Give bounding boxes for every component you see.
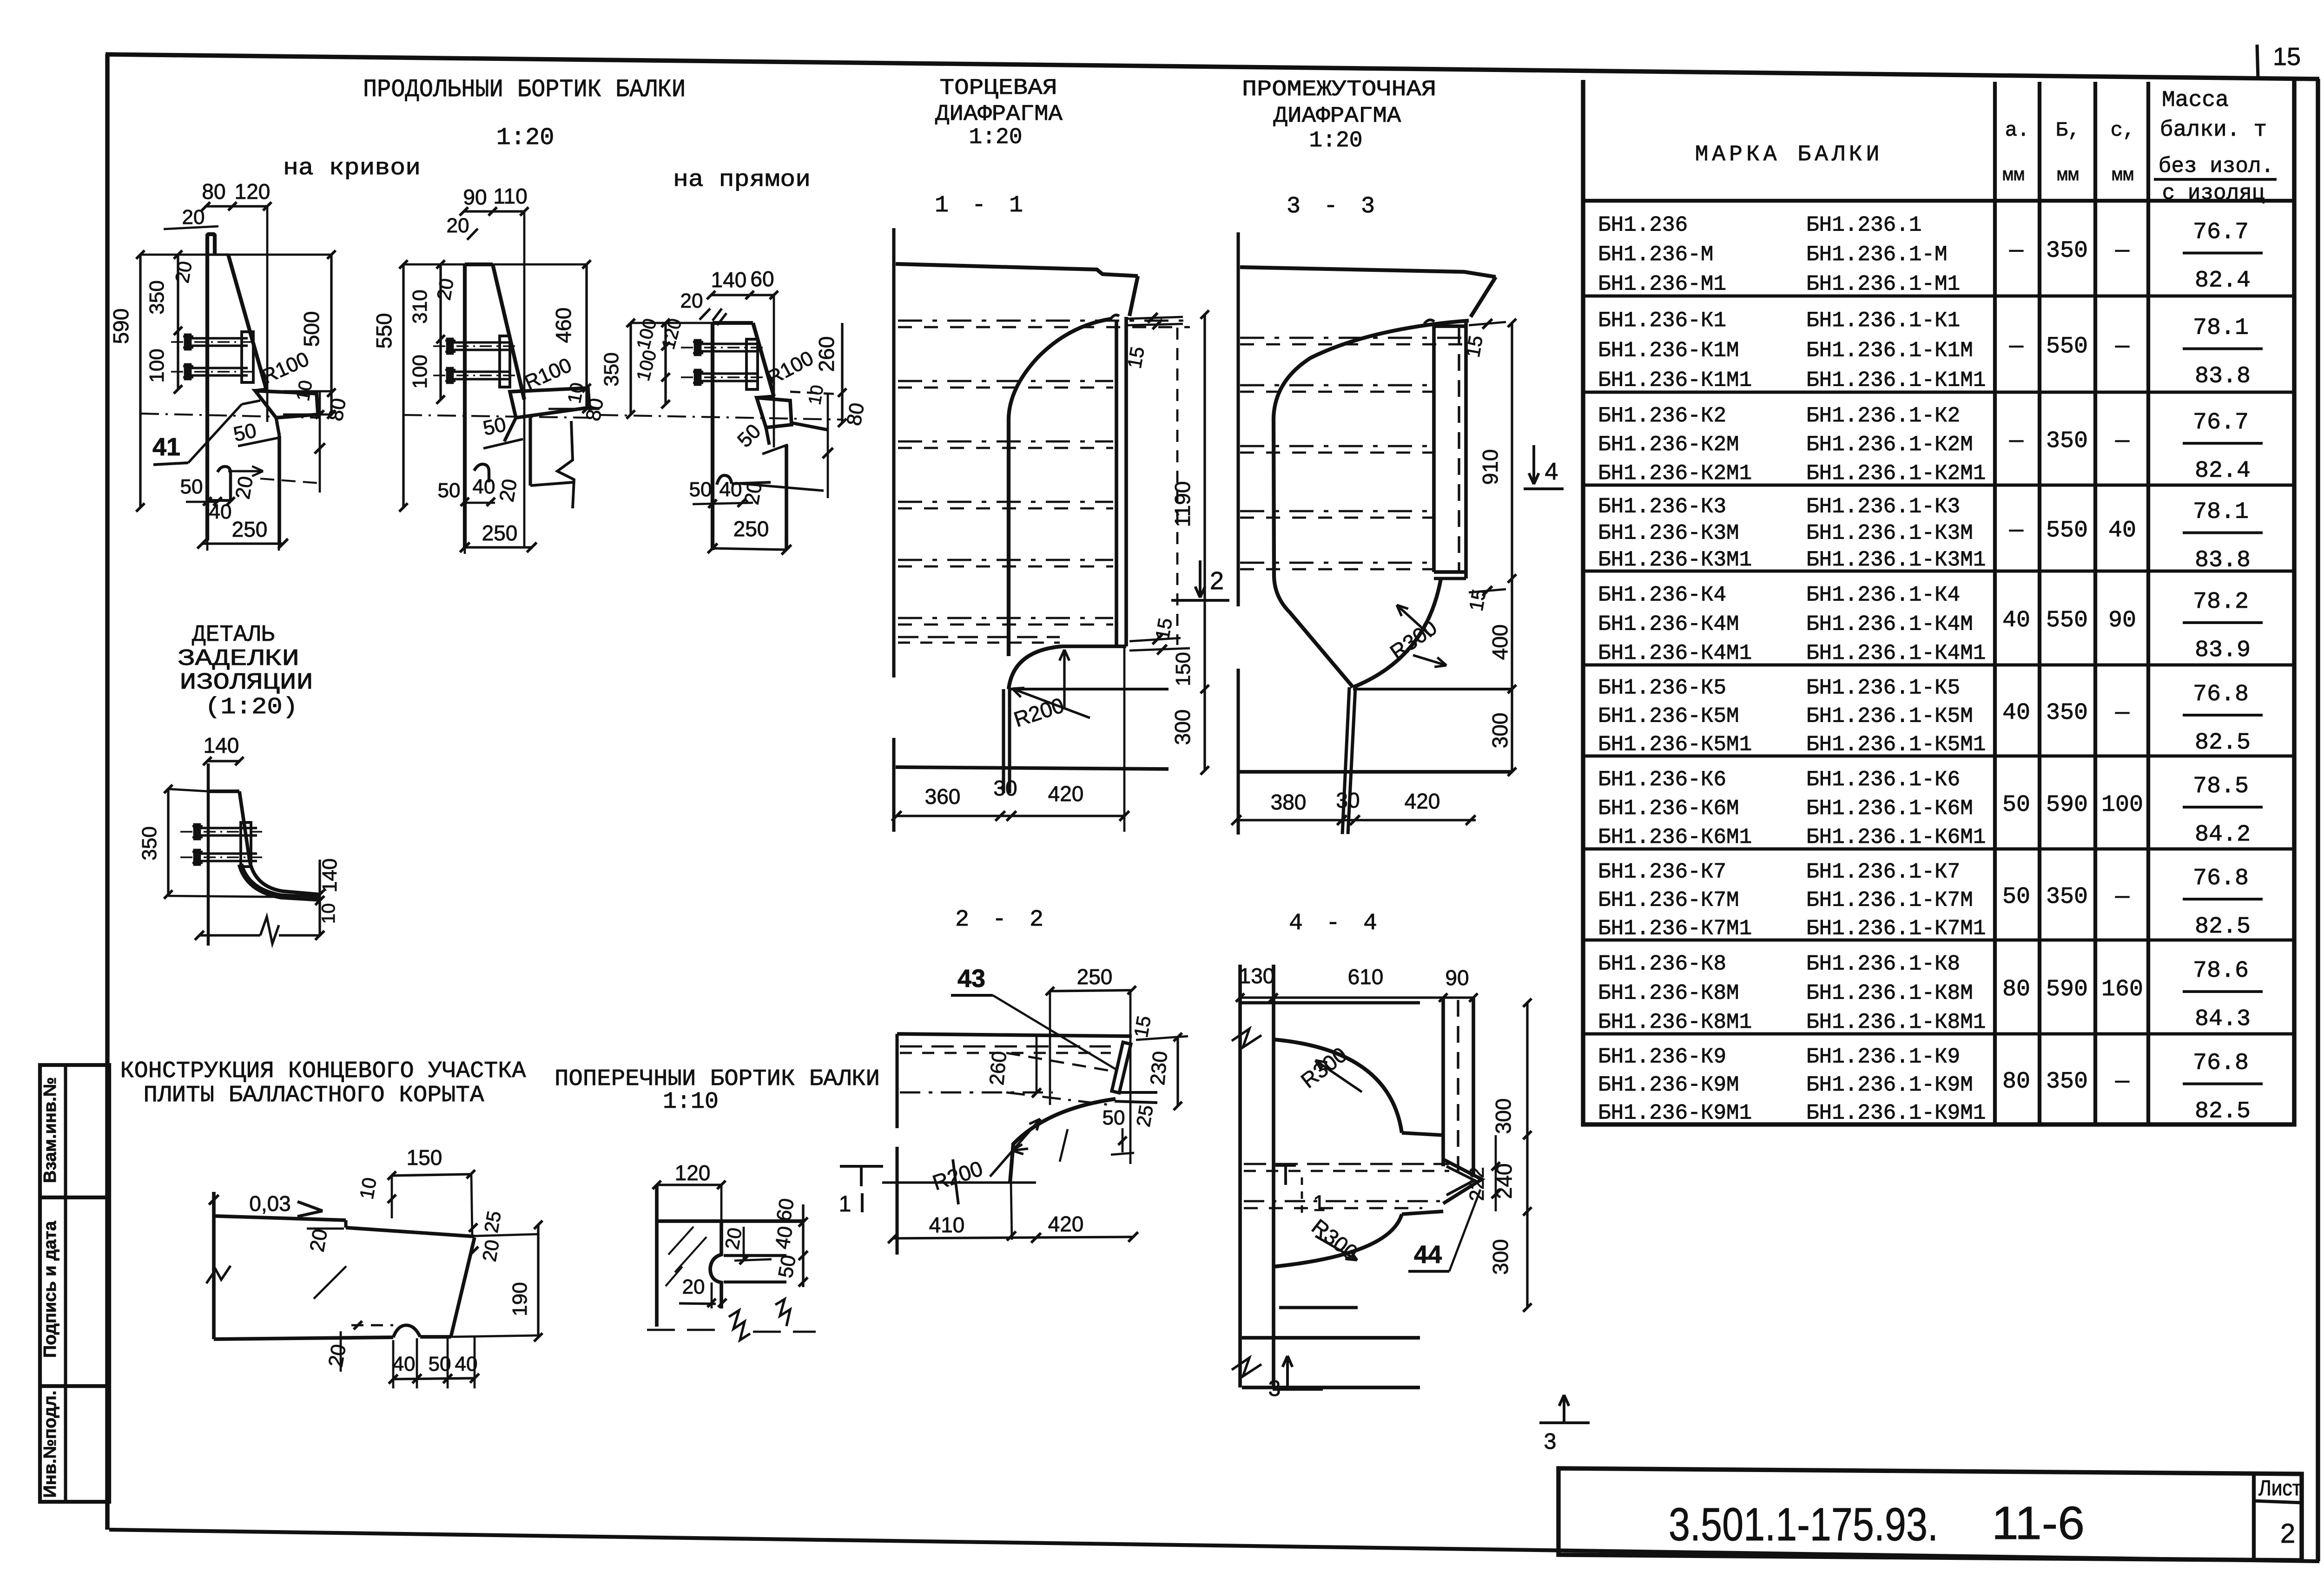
svg-text:БН1.236.1-К7: БН1.236.1-К7 [1806, 860, 1960, 884]
drawing A anchor bolt 2 [171, 371, 255, 373]
svg-text:БН1.236-К7М: БН1.236-К7М [1598, 888, 1739, 913]
svg-text:БН1.236.1-К9М1: БН1.236.1-К9М1 [1806, 1101, 1986, 1125]
svg-text:БН1.236-К9: БН1.236-К9 [1598, 1045, 1726, 1069]
drawing B anchor bolt 2 [433, 375, 517, 376]
svg-text:10: 10 [356, 1176, 381, 1201]
stamp column outer box [40, 1065, 109, 1502]
svg-text:Инв.№подл.: Инв.№подл. [40, 1390, 60, 1498]
svg-text:1:20: 1:20 [1309, 128, 1362, 153]
drawing E top surface [215, 1216, 346, 1220]
svg-text:БН1.236-К1: БН1.236-К1 [1598, 309, 1726, 333]
section 3-3 left broken edge [1236, 232, 1240, 606]
svg-text:БН1.236-К1М: БН1.236-К1М [1598, 338, 1739, 362]
svg-text:3: 3 [1544, 1429, 1557, 1454]
svg-text:420: 420 [1405, 789, 1440, 813]
svg-text:БН1.236-К5: БН1.236-К5 [1598, 676, 1726, 700]
section 1-1 drain stem [1002, 689, 1005, 793]
svg-text:БН1.236.1-К1: БН1.236.1-К1 [1806, 309, 1960, 333]
svg-text:БН1.236-К8М1: БН1.236-К8М1 [1598, 1010, 1752, 1034]
svg-text:БН1.236-К8: БН1.236-К8 [1598, 952, 1726, 976]
svg-text:БН1.236.1-К3: БН1.236.1-К3 [1806, 494, 1960, 519]
svg-text:400: 400 [1488, 625, 1512, 660]
svg-text:БН1.236.1-К4: БН1.236.1-К4 [1806, 583, 1960, 607]
section 2-2 left broken edge [895, 1034, 898, 1128]
svg-text:100: 100 [2101, 792, 2143, 818]
svg-text:41: 41 [152, 433, 180, 461]
svg-text:50: 50 [1103, 1106, 1125, 1129]
svg-text:222: 222 [1466, 1167, 1488, 1201]
svg-text:40: 40 [720, 478, 742, 501]
svg-text:50: 50 [2002, 792, 2030, 818]
svg-text:БН1.236-К5М: БН1.236-К5М [1598, 704, 1739, 729]
svg-text:140: 140 [204, 733, 239, 757]
svg-text:10: 10 [805, 383, 828, 406]
svg-text:90: 90 [2108, 607, 2136, 634]
frame bottom border [109, 1530, 2319, 1561]
svg-text:76.7: 76.7 [2193, 219, 2249, 246]
svg-text:20: 20 [324, 1342, 350, 1369]
svg-text:20: 20 [682, 1275, 705, 1298]
section 3-3 diaphragm band [1434, 321, 1466, 579]
svg-text:260: 260 [985, 1050, 1011, 1086]
section 3-3 bottom dim 380 30 420 [1236, 819, 1476, 821]
svg-text:20: 20 [495, 477, 522, 504]
svg-text:мм: мм [2057, 165, 2079, 186]
svg-text:БН1.236-К2М: БН1.236-К2М [1598, 433, 1739, 457]
svg-text:11-6: 11-6 [1992, 1497, 2085, 1549]
svg-text:120: 120 [675, 1161, 711, 1185]
svg-text:15: 15 [1130, 1014, 1155, 1039]
svg-text:550: 550 [2046, 607, 2088, 634]
svg-text:610: 610 [1348, 965, 1384, 989]
drawing A lip [255, 391, 318, 418]
section 4-4 web break marks [1232, 1029, 1261, 1047]
svg-text:—: — [2115, 884, 2130, 910]
svg-text:БН1.236-К6: БН1.236-К6 [1598, 768, 1726, 792]
drawing F bottom dashed line [647, 1329, 725, 1331]
svg-text:82.5: 82.5 [2195, 1098, 2251, 1125]
svg-text:82.5: 82.5 [2195, 914, 2251, 940]
detail dim 350 [167, 789, 169, 894]
drawing A top tab [207, 232, 215, 236]
svg-text:350: 350 [600, 352, 623, 386]
svg-text:1:20: 1:20 [969, 125, 1022, 150]
svg-text:Подпись и дата: Подпись и дата [40, 1221, 60, 1358]
svg-text:МАРКА БАЛКИ: МАРКА БАЛКИ [1695, 142, 1883, 167]
svg-text:1:20: 1:20 [496, 124, 555, 151]
svg-text:ДИАФРАГМА: ДИАФРАГМА [935, 102, 1063, 127]
svg-text:80: 80 [2002, 976, 2030, 1003]
svg-text:БН1.236-К1М1: БН1.236-К1М1 [1598, 368, 1752, 393]
drawing A bolt bracket [242, 332, 253, 382]
svg-text:БН1.236.1: БН1.236.1 [1806, 213, 1921, 237]
svg-text:40: 40 [2108, 518, 2136, 544]
svg-text:50: 50 [438, 479, 461, 502]
svg-text:300: 300 [1488, 713, 1512, 749]
svg-text:20: 20 [740, 480, 766, 506]
section 4-4 middle tendon dashes [1244, 1163, 1449, 1165]
drawing B lip [510, 388, 589, 418]
svg-text:40: 40 [393, 1353, 416, 1375]
svg-text:190: 190 [508, 1282, 531, 1316]
section 4-4 top slab surface [1240, 1001, 1420, 1004]
svg-text:410: 410 [929, 1213, 965, 1237]
svg-text:76.7: 76.7 [2193, 409, 2249, 436]
svg-text:—: — [2115, 334, 2130, 360]
svg-text:БН1.236.1-К1М: БН1.236.1-К1М [1806, 338, 1973, 362]
table header bottom line [1583, 199, 2294, 203]
drawing C lip [757, 398, 792, 427]
section 3-3 R300 arc [1353, 579, 1441, 687]
section 3-3 top right cut [1471, 277, 1496, 317]
drawing C dim 350 [629, 323, 632, 414]
svg-text:БН1.236-К6М1: БН1.236-К6М1 [1598, 825, 1752, 849]
frame top border [106, 54, 2319, 79]
svg-text:360: 360 [925, 784, 961, 809]
drawing B axis dash line [403, 415, 589, 418]
svg-text:20: 20 [478, 1238, 503, 1263]
svg-text:83.8: 83.8 [2195, 547, 2251, 574]
svg-text:350: 350 [2046, 884, 2088, 910]
section marker 3 right [1563, 1395, 1565, 1423]
section 2-2 kerb profile with R200 [1010, 1099, 1116, 1183]
svg-text:84.2: 84.2 [2195, 822, 2251, 848]
svg-text:80: 80 [2002, 1069, 2030, 1095]
svg-text:20: 20 [171, 259, 196, 284]
svg-text:КОНСТРУКЦИЯ КОНЦЕВОГО УЧАСТКА: КОНСТРУКЦИЯ КОНЦЕВОГО УЧАСТКА [120, 1058, 526, 1085]
svg-text:350: 350 [145, 280, 168, 314]
svg-text:БН1.236-К6М: БН1.236-К6М [1598, 796, 1739, 821]
drawing A bottom notch [218, 467, 231, 500]
svg-text:1:10: 1:10 [663, 1089, 719, 1115]
svg-text:а.: а. [2005, 119, 2030, 142]
svg-text:Масса: Масса [2162, 88, 2229, 113]
svg-text:350: 350 [2046, 700, 2088, 726]
section 1-1 bottom dim 360 30 420 [897, 815, 1124, 817]
table outer border [1583, 79, 2294, 1124]
svg-text:2 - 2: 2 - 2 [955, 907, 1048, 933]
svg-text:1: 1 [839, 1192, 852, 1216]
drawing A axis dash line [140, 414, 321, 418]
section 3-3 inner curved face [1274, 321, 1469, 687]
svg-text:20: 20 [305, 1227, 332, 1254]
svg-text:БН1.236.1-К5М: БН1.236.1-К5М [1806, 704, 1973, 729]
svg-text:25: 25 [480, 1209, 505, 1234]
section 3-3 trough bottom [1353, 688, 1512, 690]
svg-text:50: 50 [481, 413, 508, 440]
svg-text:300: 300 [1170, 710, 1195, 745]
svg-text:350: 350 [2046, 238, 2088, 264]
svg-text:250: 250 [1077, 965, 1113, 989]
svg-text:БН1.236.1-К5: БН1.236.1-К5 [1806, 676, 1960, 700]
svg-text:910: 910 [1478, 449, 1502, 485]
svg-text:350: 350 [2046, 1069, 2088, 1095]
svg-text:50: 50 [2002, 884, 2030, 910]
drawing C bolt bracket [746, 339, 758, 389]
svg-text:с изоляц: с изоляц [2162, 181, 2265, 205]
svg-text:балки. т: балки. т [2160, 118, 2267, 143]
drawing B anchor bolt 1 [433, 345, 517, 347]
title block list divider [2252, 1474, 2256, 1560]
drawing E left edge [212, 1192, 216, 1339]
svg-text:80: 80 [842, 401, 869, 427]
frame left border [105, 54, 109, 1530]
svg-text:250: 250 [482, 521, 518, 545]
svg-text:82.5: 82.5 [2195, 730, 2251, 756]
section 4-4 V notch item 44 [1443, 1159, 1482, 1203]
drawing C bottom notch [717, 475, 732, 485]
svg-text:—: — [2115, 238, 2130, 264]
detail wall centerline [207, 763, 210, 946]
drawing B kerb on straight: wall outline [463, 264, 467, 547]
svg-text:БН1.236-К7М1: БН1.236-К7М1 [1598, 916, 1752, 940]
section 3-3 right dim line [1511, 323, 1513, 772]
svg-text:590: 590 [2046, 792, 2088, 818]
svg-text:без изол.: без изол. [2159, 154, 2274, 178]
drawing C dim 140 60 [711, 294, 774, 296]
svg-text:50: 50 [689, 478, 712, 501]
section 1-1 top right notch edge [1129, 276, 1138, 316]
svg-text:50: 50 [180, 475, 203, 498]
svg-text:1190: 1190 [1170, 481, 1195, 527]
title block box [1558, 1468, 2302, 1560]
drawing F bottom breaks [729, 1310, 750, 1340]
section 4-4 web verticals [1238, 965, 1242, 1387]
drawing E leader line bottom [314, 1266, 346, 1299]
section 3-3 tendon dashes [1240, 337, 1464, 339]
svg-text:82.4: 82.4 [2195, 268, 2251, 294]
stamp column inner vertical [64, 1065, 67, 1502]
svg-text:350: 350 [138, 826, 161, 860]
svg-text:0,03: 0,03 [249, 1191, 291, 1216]
svg-text:140: 140 [711, 268, 747, 292]
section 2-2 lip step lines [1116, 1091, 1157, 1094]
svg-text:250: 250 [733, 517, 769, 541]
svg-text:1: 1 [1313, 1191, 1326, 1216]
drawing F hatch [668, 1227, 693, 1255]
frame right border [2316, 79, 2320, 1561]
drawing C dim 100 100 chain [664, 323, 667, 404]
svg-text:3 - 3: 3 - 3 [1287, 193, 1380, 220]
svg-text:БН1.236.1-К4М: БН1.236.1-К4М [1806, 612, 1973, 636]
svg-text:мм: мм [2112, 165, 2134, 186]
drawing E slanted right edge [451, 1237, 475, 1337]
svg-text:110: 110 [493, 184, 527, 208]
section 4-4 lower R300 curve [1274, 1214, 1402, 1267]
section 3-3 lip line [1434, 577, 1466, 580]
drawing E notch level dashes [351, 1324, 393, 1327]
svg-text:4: 4 [1545, 458, 1558, 485]
svg-text:43: 43 [957, 965, 985, 993]
svg-text:БН1.236.1-К7М: БН1.236.1-К7М [1806, 888, 1973, 913]
svg-text:150: 150 [407, 1145, 442, 1170]
svg-text:—: — [2009, 334, 2024, 360]
section 4-4 upper R300 curve [1274, 1039, 1402, 1133]
svg-text:БН1.236-К2: БН1.236-К2 [1598, 404, 1726, 428]
detail anchor bolt 2 [180, 856, 264, 858]
section 1-1 bottom edge [896, 767, 1169, 769]
section marker 4 right [1532, 445, 1535, 484]
svg-text:250: 250 [232, 517, 268, 541]
svg-text:40: 40 [209, 500, 232, 523]
svg-text:420: 420 [1048, 782, 1084, 806]
svg-text:БН1.236.1-К1М1: БН1.236.1-К1М1 [1806, 368, 1986, 393]
drawing C left extension [631, 322, 713, 324]
svg-text:БН1.236-К7: БН1.236-К7 [1598, 860, 1726, 884]
section 2-2 bent plate item 43 [1112, 1042, 1131, 1093]
svg-text:260: 260 [814, 336, 838, 372]
section 2-2 cut line 1-1 [882, 1181, 1036, 1183]
section 1-1 left broken edge [892, 228, 895, 677]
svg-text:140: 140 [318, 858, 341, 892]
svg-text:40: 40 [2002, 700, 2030, 726]
table column lines [1993, 82, 1997, 1124]
svg-text:на кривои: на кривои [283, 155, 421, 182]
svg-text:60: 60 [772, 1197, 799, 1223]
table row lines [1583, 294, 2294, 297]
drawing E right extension lines [471, 1174, 472, 1236]
svg-text:3: 3 [1268, 1376, 1281, 1401]
svg-text:—: — [2009, 428, 2024, 454]
drawing B top extension [403, 263, 587, 266]
svg-text:76.8: 76.8 [2193, 681, 2249, 708]
drawing C deck surface right [792, 423, 828, 430]
drawing A longitudinal kerb on curve: wall outline [207, 234, 266, 540]
svg-text:Взам.инв.№: Взам.инв.№ [40, 1077, 60, 1183]
svg-text:БН1.236-К4М: БН1.236-К4М [1598, 612, 1739, 636]
svg-text:10: 10 [318, 903, 339, 924]
svg-text:2: 2 [2280, 1519, 2295, 1549]
drawing B dim 310 100 chain [439, 264, 442, 400]
svg-text:60: 60 [750, 267, 774, 291]
svg-text:БН1.236.1-К9: БН1.236.1-К9 [1806, 1045, 1960, 1069]
svg-text:550: 550 [2046, 518, 2088, 544]
drawing A dim 500 [330, 255, 332, 414]
svg-text:—: — [2009, 238, 2024, 264]
svg-text:20: 20 [721, 1226, 746, 1251]
svg-text:БН1.236-М: БН1.236-М [1598, 243, 1713, 267]
section marker 1 left [840, 1165, 883, 1168]
drawing A lower stem [277, 436, 281, 544]
drawing B bolt bracket [500, 336, 510, 387]
svg-text:230: 230 [1146, 1050, 1172, 1086]
section 3-3 top edge [1240, 267, 1496, 277]
detail wall outline [208, 789, 239, 793]
drawing A anchor bolt 1 [171, 341, 255, 343]
svg-text:БН1.236.1-К5М1: БН1.236.1-К5М1 [1806, 732, 1986, 756]
drawing A right dims 10 80 [283, 390, 333, 393]
svg-text:БН1.236-М1: БН1.236-М1 [1598, 272, 1726, 296]
svg-text:БН1.236.1-К8: БН1.236.1-К8 [1806, 952, 1960, 976]
detail bolt bracket [241, 822, 251, 867]
section 1-1 inner curved face [1009, 319, 1112, 656]
section 2-2 top surface [897, 1034, 1132, 1036]
svg-text:БН1.236.1-К8М: БН1.236.1-К8М [1806, 981, 1973, 1005]
svg-text:БН1.236.1-К6М: БН1.236.1-К6М [1806, 796, 1973, 821]
svg-text:ЗАДЕЛКИ: ЗАДЕЛКИ [178, 646, 299, 672]
drawing F outline [655, 1185, 659, 1327]
svg-text:76.8: 76.8 [2193, 865, 2249, 892]
svg-text:78.1: 78.1 [2193, 499, 2249, 526]
svg-text:БН1.236.1-К8М1: БН1.236.1-К8М1 [1806, 1010, 1986, 1034]
svg-text:15: 15 [1123, 345, 1149, 370]
svg-text:300: 300 [1491, 1098, 1515, 1134]
drawing B bottom notch [474, 464, 489, 482]
drawing B lower stem broken edge [528, 418, 532, 486]
svg-text:300: 300 [1488, 1239, 1512, 1275]
svg-text:с,: с, [2111, 119, 2135, 142]
svg-text:3.501.1-175.93.: 3.501.1-175.93. [1669, 1499, 1938, 1551]
svg-text:БН1.236-К9М1: БН1.236-К9М1 [1598, 1101, 1752, 1125]
svg-text:160: 160 [2101, 976, 2143, 1003]
svg-text:БН1.236-К9М: БН1.236-К9М [1598, 1073, 1739, 1097]
section 4-4 bottom edge [1242, 1336, 1420, 1340]
drawing C kerb section: wall outline [711, 323, 714, 550]
svg-text:ДЕТАЛЬ: ДЕТАЛЬ [192, 622, 275, 648]
section 1-1 tendon dashes [898, 320, 1190, 322]
svg-text:20: 20 [680, 289, 703, 312]
svg-text:БН1.236.1-К2М1: БН1.236.1-К2М1 [1806, 461, 1986, 486]
svg-text:ПЛИТЫ БАЛЛАСТНОГО КОРЫТА: ПЛИТЫ БАЛЛАСТНОГО КОРЫТА [144, 1082, 484, 1109]
svg-text:420: 420 [1048, 1212, 1084, 1236]
svg-text:40: 40 [2002, 607, 2030, 634]
svg-text:БН1.236-К4М1: БН1.236-К4М1 [1598, 641, 1752, 665]
svg-text:120: 120 [235, 179, 271, 204]
svg-text:БН1.236.1-К3М: БН1.236.1-К3М [1806, 521, 1973, 546]
section marker 1 right [1275, 1164, 1296, 1167]
svg-text:БН1.236.1-К2: БН1.236.1-К2 [1806, 404, 1960, 428]
section 1-1 trough lip line [1062, 644, 1126, 648]
svg-text:40: 40 [473, 475, 495, 498]
section 1-1 top edge [896, 264, 1138, 276]
svg-text:550: 550 [372, 313, 396, 349]
svg-text:БН1.236.1-М1: БН1.236.1-М1 [1806, 272, 1960, 296]
svg-text:БН1.236-К8М: БН1.236-К8М [1598, 981, 1739, 1005]
section 2-2 extension to dim line [1011, 1183, 1012, 1240]
svg-text:1 - 1: 1 - 1 [935, 192, 1028, 219]
drawing A top extension line [140, 254, 331, 256]
svg-text:БН1.236-К3: БН1.236-К3 [1598, 494, 1726, 519]
svg-text:БН1.236.1-К4М1: БН1.236.1-К4М1 [1806, 641, 1986, 665]
drawing C lower stem [785, 445, 788, 550]
section 2-2 slanted tendon dashes [1006, 1053, 1115, 1072]
svg-text:15: 15 [1462, 334, 1487, 359]
svg-text:500: 500 [299, 311, 324, 347]
detail anchor bolt 1 [180, 831, 264, 833]
svg-text:ДИАФРАГМА: ДИАФРАГМА [1274, 104, 1401, 129]
svg-text:БН1.236: БН1.236 [1598, 213, 1688, 237]
section 1-1 trough bottom line [1009, 688, 1169, 690]
svg-text:(1:20): (1:20) [205, 694, 298, 721]
section 4-4 right band [1441, 998, 1445, 1166]
section 4-4 lower end line [1242, 1386, 1420, 1389]
svg-text:550: 550 [2046, 334, 2088, 360]
svg-text:БН1.236.1-К9М: БН1.236.1-К9М [1806, 1073, 1973, 1097]
svg-text:20: 20 [433, 276, 458, 302]
svg-text:80: 80 [202, 179, 225, 204]
svg-text:ПРОМЕЖУТОЧНАЯ: ПРОМЕЖУТОЧНАЯ [1242, 77, 1436, 102]
svg-text:20: 20 [447, 214, 469, 237]
svg-text:150: 150 [1172, 652, 1195, 686]
svg-text:83.9: 83.9 [2195, 637, 2251, 664]
svg-text:30: 30 [993, 776, 1017, 800]
svg-text:100: 100 [145, 348, 168, 382]
svg-text:—: — [2115, 1069, 2130, 1095]
drawing E bottom edge with notch [214, 1337, 393, 1339]
section marker 3 left [1286, 1356, 1289, 1388]
section 2-2 tendon dashes [900, 1045, 1111, 1048]
svg-text:—: — [2009, 518, 2024, 544]
